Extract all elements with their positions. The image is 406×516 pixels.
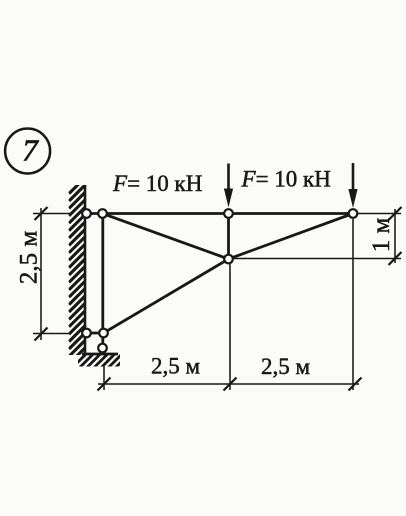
svg-text:2,5 м: 2,5 м — [261, 354, 311, 379]
svg-text:F= 10 кН: F= 10 кН — [241, 167, 331, 192]
svg-text:7: 7 — [22, 133, 39, 168]
svg-text:F= 10 кН: F= 10 кН — [112, 171, 202, 196]
svg-text:1 м: 1 м — [368, 218, 395, 253]
svg-text:2,5 м: 2,5 м — [151, 354, 201, 379]
svg-text:2,5 м: 2,5 м — [16, 231, 43, 285]
